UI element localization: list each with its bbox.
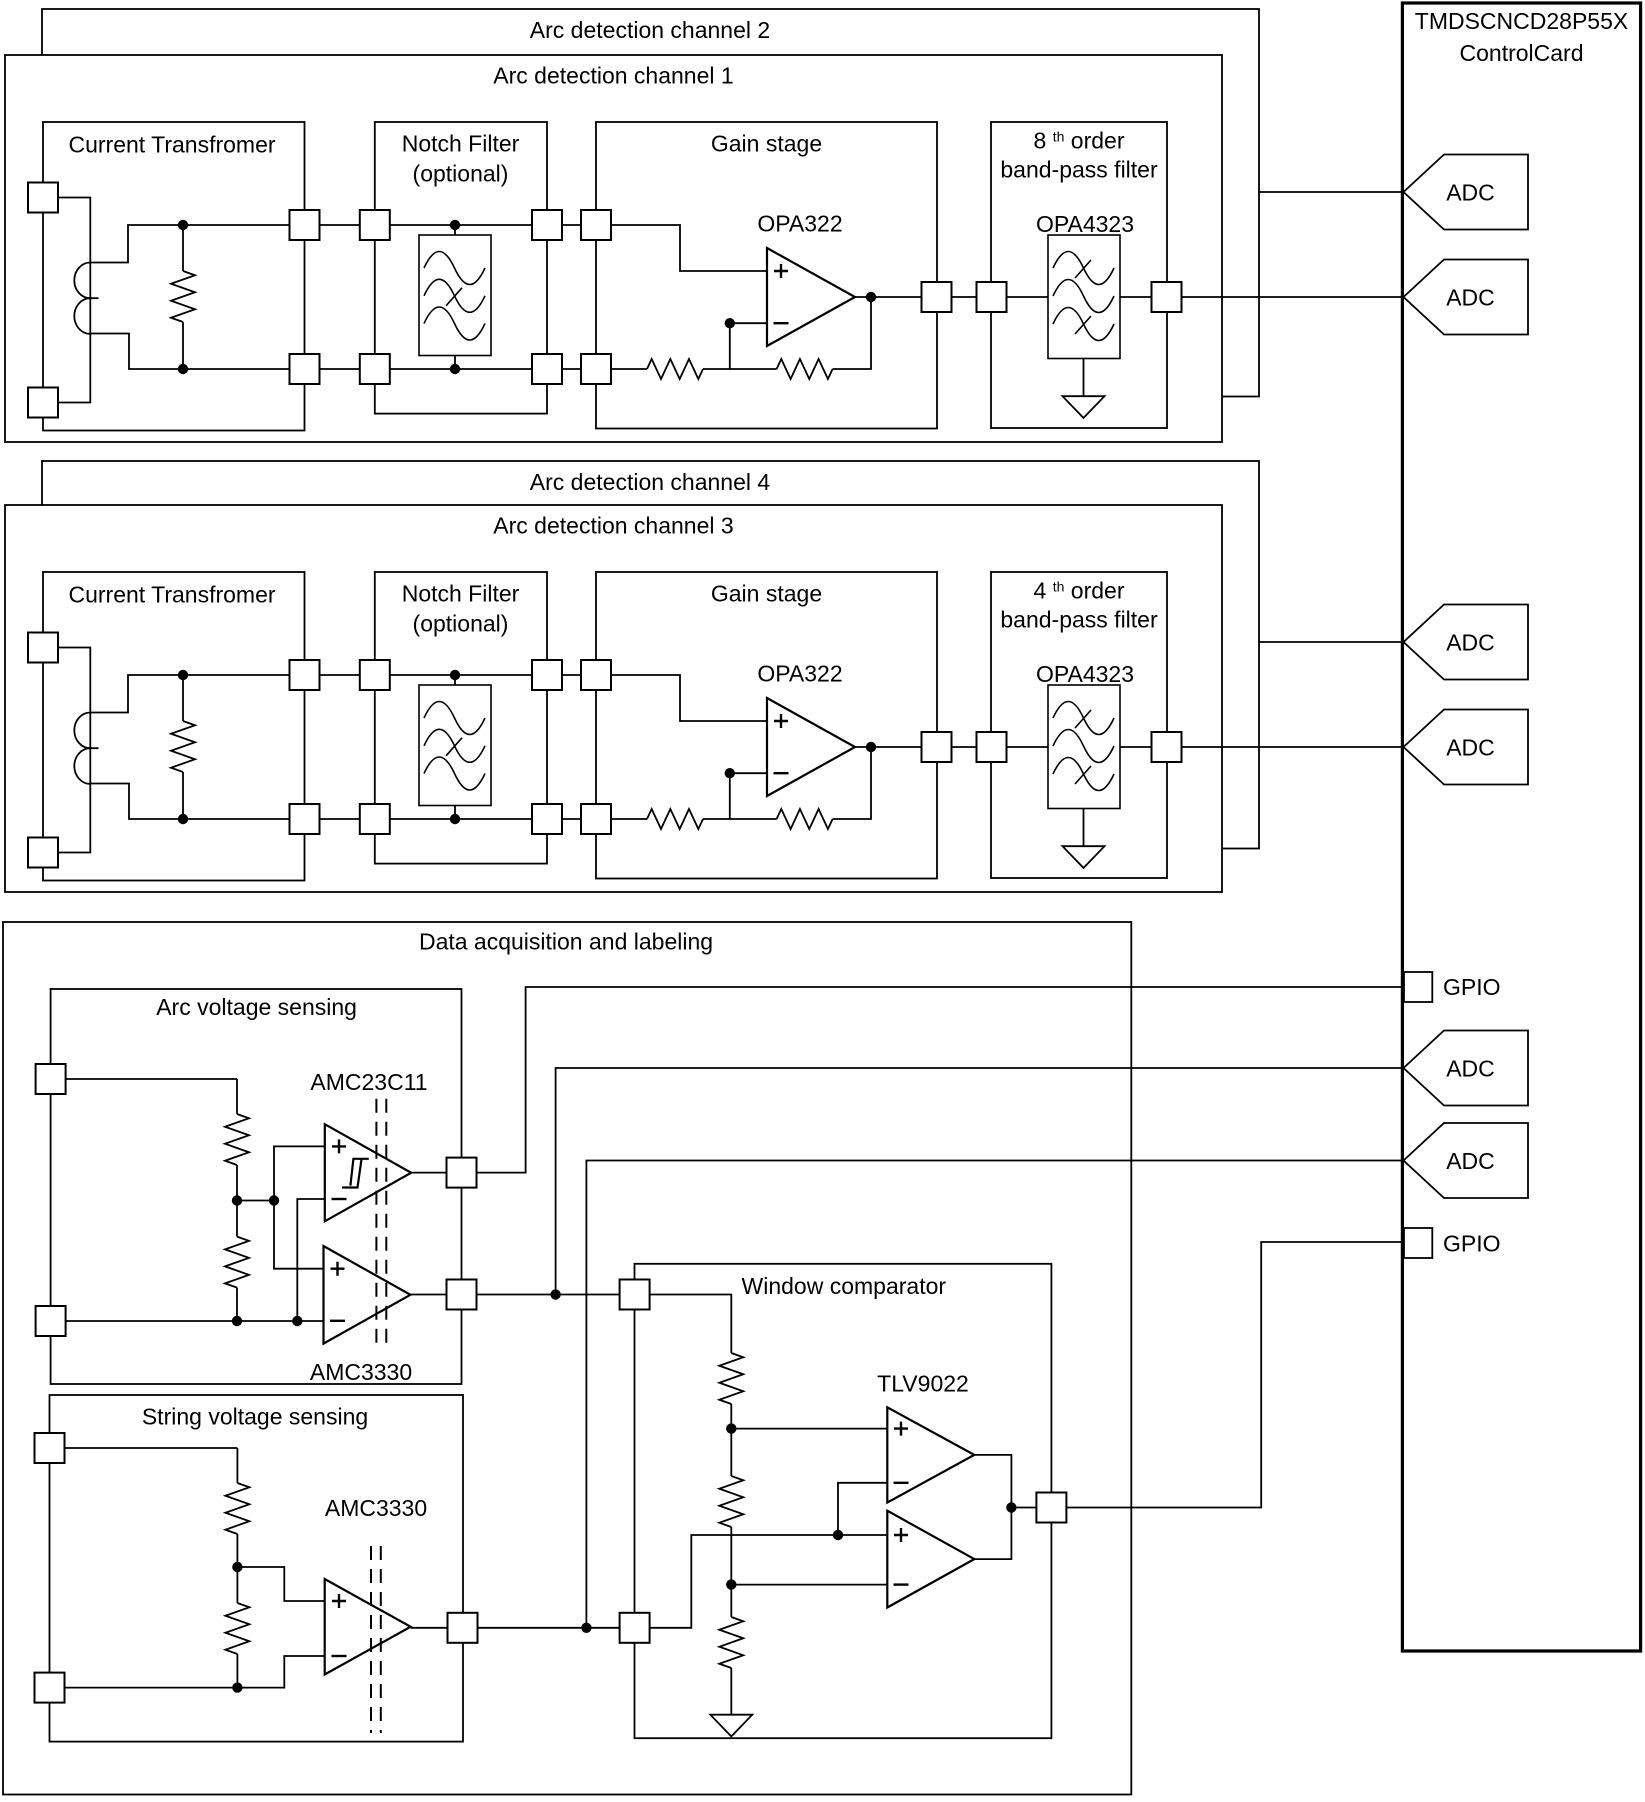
svg-text:Arc detection channel 3: Arc detection channel 3 — [493, 513, 733, 539]
current transformer T1 box — [43, 122, 305, 431]
svg-text:AMC3330: AMC3330 — [325, 1495, 427, 1521]
wire upper threshold to U8 + — [731, 1428, 887, 1430]
node gain 3 inverting junction — [725, 768, 735, 778]
port U6 out — [447, 1280, 477, 1310]
port notch 1 out bottom — [532, 354, 562, 384]
svg-text:GPIO: GPIO — [1443, 974, 1501, 1000]
gain 3 input resistor R3b — [596, 818, 647, 820]
pin GPIO1 square — [1404, 972, 1432, 1002]
port T3 primary bottom — [28, 838, 58, 868]
node window signal junction — [833, 1530, 843, 1540]
wire window top input — [635, 1295, 732, 1354]
svg-text:Notch Filter: Notch Filter — [402, 131, 520, 157]
port gain 3 in top — [581, 660, 611, 690]
port string sense top — [35, 1433, 65, 1463]
node gain 1 output junction — [866, 292, 876, 302]
svg-text:OPA4323: OPA4323 — [1036, 211, 1134, 237]
wire U7 output to ADC — [586, 1161, 1403, 1628]
port arc sense bottom — [36, 1306, 66, 1336]
svg-text:AMC23C11: AMC23C11 — [310, 1069, 427, 1095]
wire string sense top input — [50, 1448, 238, 1483]
port gain 1 in bottom — [581, 354, 611, 384]
svg-text:ADC: ADC — [1446, 1148, 1495, 1174]
port filter 1 in — [977, 282, 1007, 312]
svg-text:(optional): (optional) — [413, 161, 509, 187]
T3 primary coil — [74, 713, 98, 784]
notch filter block 3 box — [375, 572, 547, 864]
port gain 3 in bottom — [581, 804, 611, 834]
svg-text:TLV9022: TLV9022 — [877, 1371, 969, 1397]
wire R7a to R7b — [730, 1404, 732, 1476]
window comparator box — [635, 1264, 1052, 1738]
notch 3 top stub — [454, 675, 456, 685]
comparator U5 plus mark — [332, 1139, 346, 1153]
wire window output to GPIO — [1051, 1242, 1402, 1508]
node window output junction — [1006, 1502, 1016, 1512]
notch 3 bottom stub — [454, 806, 456, 820]
svg-text:8 th order: 8 th order — [1034, 128, 1125, 154]
wire U5 - input — [297, 1199, 325, 1321]
svg-text:Arc detection channel 1: Arc detection channel 1 — [493, 63, 733, 89]
node window divider upper — [726, 1423, 736, 1433]
port T3 primary top — [28, 633, 58, 663]
wire U6 output to ADC — [556, 1068, 1404, 1295]
svg-text:String voltage sensing: String voltage sensing — [142, 1404, 368, 1430]
band-pass filter block 1 box — [991, 122, 1167, 428]
op-amp U1a minus mark — [774, 322, 789, 324]
pin ADC3 pentagon — [1404, 605, 1529, 680]
wire U7 output to window comparator — [411, 1627, 635, 1629]
svg-text:Current Transfromer: Current Transfromer — [68, 582, 275, 608]
svg-text:ControlCard: ControlCard — [1460, 40, 1584, 66]
wire 1 signal to ADC — [855, 296, 1404, 298]
arc detection channel 2 box — [42, 9, 1259, 397]
svg-text:ADC: ADC — [1446, 735, 1495, 761]
notch filter block 1 box — [375, 122, 547, 414]
wire lower threshold to U9 - — [731, 1584, 887, 1586]
pin ADC4 pentagon — [1404, 710, 1529, 785]
svg-text:(optional): (optional) — [413, 611, 509, 637]
wire tap to U5 + input — [274, 1146, 325, 1200]
wire channel 4 to ADC — [1259, 641, 1404, 643]
node arc tap junction — [269, 1195, 279, 1205]
T3 primary wire — [43, 648, 90, 853]
node arc divider mid — [232, 1195, 242, 1205]
wire window bottom input — [635, 1535, 888, 1628]
svg-text:Current Transfromer: Current Transfromer — [68, 132, 275, 158]
port U5 out — [447, 1158, 477, 1188]
T1 primary wire — [43, 198, 90, 403]
port T1 out top — [290, 210, 320, 240]
node T3 top junction — [178, 670, 188, 680]
node arc bottom tap junction — [292, 1316, 302, 1326]
ground 1 under band-pass filter — [1083, 359, 1085, 397]
wire window output — [1011, 1507, 1051, 1509]
wire U8/U9 outputs join — [974, 1455, 1011, 1559]
wire CT3 to gain bottom — [305, 818, 597, 820]
T1 secondary bottom wire — [90, 334, 304, 370]
node notch 3 top junction — [450, 670, 460, 680]
pin ADC6 pentagon — [1404, 1123, 1529, 1198]
wire R7c to ground — [730, 1668, 732, 1677]
arc detection channel 4 box — [42, 461, 1259, 849]
op-amp U3a - input wire — [730, 773, 767, 819]
port window in bottom — [620, 1613, 650, 1643]
node gain 1 inverting junction — [725, 318, 735, 328]
port notch 1 out top — [532, 210, 562, 240]
amplifier U7 minus mark — [332, 1655, 347, 1657]
port notch 1 in bottom — [360, 354, 390, 384]
gain stage block 3 box — [596, 572, 937, 879]
band-pass filter block 3 box — [991, 572, 1167, 878]
op-amp U3a + input wire — [596, 675, 767, 721]
op-amp U1a plus mark — [774, 264, 788, 278]
comparator U8 minus mark — [894, 1482, 909, 1484]
wire divider tap — [237, 1200, 274, 1202]
op-amp U1a triangle — [767, 248, 855, 346]
comparator U5 minus mark — [332, 1198, 347, 1200]
amplifier U7 triangle — [325, 1579, 411, 1675]
wire U6 output to window comparator — [410, 1294, 634, 1296]
pin GPIO2 square — [1404, 1228, 1432, 1258]
svg-text:OPA322: OPA322 — [757, 211, 842, 237]
op-amp U3a minus mark — [774, 772, 789, 774]
wire R6a to R6b — [236, 1534, 238, 1603]
port notch 3 out top — [532, 660, 562, 690]
port notch 3 in bottom — [360, 804, 390, 834]
port arc sense top — [36, 1064, 66, 1094]
notch filter 3 glyph — [419, 685, 491, 806]
resistor R6a — [225, 1483, 249, 1534]
wire CT1 to gain bottom — [305, 368, 597, 370]
wire R7b to R7c — [730, 1527, 732, 1617]
node window divider lower — [726, 1579, 736, 1589]
port gain 3 out — [922, 732, 952, 762]
node U7 output junction — [581, 1623, 591, 1633]
comparator U9 plus mark — [894, 1528, 908, 1542]
svg-text:ADC: ADC — [1446, 285, 1495, 311]
amplifier U7 plus mark — [332, 1594, 346, 1608]
data acquisition and labeling box — [3, 922, 1131, 1795]
pin ADC1 pentagon — [1404, 155, 1529, 230]
port gain 1 out — [922, 282, 952, 312]
port notch 3 out bottom — [532, 804, 562, 834]
ground 3 under band-pass filter — [1083, 809, 1085, 847]
isolation barrier U5/U6 dashed lines — [376, 1099, 386, 1352]
resistor R7c — [719, 1617, 743, 1668]
node notch 1 top junction — [450, 220, 460, 230]
svg-text:OPA4323: OPA4323 — [1036, 661, 1134, 687]
notch 1 top stub — [454, 225, 456, 235]
port filter 1 out — [1152, 282, 1182, 312]
svg-text:AMC3330: AMC3330 — [310, 1359, 412, 1385]
amplifier U6 plus mark — [331, 1262, 345, 1276]
svg-text:Gain stage: Gain stage — [711, 131, 822, 157]
burden resistor R3a — [182, 675, 184, 721]
port U7 out — [448, 1613, 478, 1643]
comparator U9 triangle — [887, 1511, 974, 1608]
wire R5b to bottom — [236, 1288, 238, 1321]
wire CT1 to gain top — [305, 224, 597, 226]
svg-text:Window comparator: Window comparator — [742, 1273, 947, 1299]
port T1 out bottom — [290, 354, 320, 384]
isolation barrier U7 dashed lines — [371, 1546, 381, 1733]
node T3 bottom junction — [178, 814, 188, 824]
svg-text:ADC: ADC — [1446, 1056, 1495, 1082]
op-amp U3a triangle — [767, 698, 855, 796]
svg-text:4 th order: 4 th order — [1034, 578, 1125, 604]
wire tap to U6 + input — [274, 1201, 324, 1269]
band-pass filter U3b glyph — [1048, 685, 1120, 809]
op-amp U3a plus mark — [774, 714, 788, 728]
svg-text:GPIO: GPIO — [1443, 1231, 1501, 1257]
comparator U5 triangle — [325, 1124, 411, 1221]
comparator U9 minus mark — [894, 1583, 909, 1585]
T3 secondary bottom wire — [90, 784, 304, 820]
wire R6b to bottom — [236, 1654, 238, 1688]
node gain 3 output junction — [866, 742, 876, 752]
port notch 3 in top — [360, 660, 390, 690]
wire channel 2 to ADC — [1259, 191, 1404, 193]
svg-text:Gain stage: Gain stage — [711, 581, 822, 607]
resistor R7b — [719, 1476, 743, 1527]
svg-text:band-pass filter: band-pass filter — [1000, 157, 1158, 183]
node U6 output junction — [550, 1289, 560, 1299]
amplifier U6 triangle — [324, 1246, 411, 1344]
wire R5a to R5b — [236, 1165, 238, 1237]
port string sense bottom — [35, 1673, 65, 1703]
wire CT3 to gain top — [305, 674, 597, 676]
pin ADC5 pentagon — [1404, 1031, 1529, 1106]
resistor R5a — [225, 1114, 249, 1165]
port window out — [1036, 1493, 1066, 1523]
node T1 bottom junction — [178, 364, 188, 374]
TMDSCNCD28P55X ControlCard box — [1402, 3, 1640, 1651]
node string bottom junction — [232, 1682, 242, 1692]
port T3 out top — [290, 660, 320, 690]
port T1 primary bottom — [28, 388, 58, 418]
T1 primary coil — [74, 263, 98, 334]
wire signal to U8 - — [838, 1483, 887, 1535]
port gain 1 in top — [581, 210, 611, 240]
comparator U8 triangle — [887, 1407, 974, 1502]
svg-text:Arc voltage sensing: Arc voltage sensing — [156, 994, 357, 1020]
arc detection channel 3 box — [5, 505, 1222, 892]
port T1 primary top — [28, 183, 58, 213]
T3 secondary top wire — [90, 675, 304, 713]
notch 1 bottom stub — [454, 356, 456, 370]
amplifier U6 minus mark — [330, 1320, 345, 1322]
node arc bottom R junction — [232, 1316, 242, 1326]
burden resistor R1a — [182, 225, 184, 271]
port filter 3 out — [1152, 732, 1182, 762]
pin ADC2 pentagon — [1404, 260, 1529, 335]
svg-text:TMDSCNCD28P55X: TMDSCNCD28P55X — [1415, 8, 1628, 34]
svg-text:ADC: ADC — [1446, 630, 1495, 656]
op-amp U1a - input wire — [730, 323, 767, 369]
port window in top — [620, 1280, 650, 1310]
gain 3 feedback resistor R3c — [703, 818, 777, 820]
notch filter 1 glyph — [419, 235, 491, 356]
node string divider mid — [232, 1562, 242, 1572]
port notch 1 in top — [360, 210, 390, 240]
wire 3 signal to ADC — [855, 746, 1404, 748]
svg-text:band-pass filter: band-pass filter — [1000, 607, 1158, 633]
comparator U5 hysteresis glyph — [342, 1159, 369, 1188]
T1 secondary top wire — [90, 225, 304, 263]
port T3 out bottom — [290, 804, 320, 834]
gain 1 feedback resistor R1c — [703, 368, 777, 370]
string voltage sensing box — [50, 1395, 464, 1742]
resistor R7a — [719, 1353, 743, 1404]
arc voltage sensing box — [51, 989, 462, 1384]
wire arc sense bottom input — [51, 1320, 324, 1322]
svg-text:OPA322: OPA322 — [757, 661, 842, 687]
svg-text:ADC: ADC — [1446, 180, 1495, 206]
ground under window divider — [730, 1677, 732, 1715]
resistor R5b — [225, 1237, 249, 1288]
node T1 top junction — [178, 220, 188, 230]
port filter 3 in — [977, 732, 1007, 762]
band-pass filter U1b glyph — [1048, 235, 1120, 359]
node notch 1 bottom junction — [450, 364, 460, 374]
node notch 3 bottom junction — [450, 814, 460, 824]
svg-text:Arc detection channel 4: Arc detection channel 4 — [530, 469, 771, 495]
wire arc sense top input — [51, 1079, 237, 1114]
op-amp U1a + input wire — [596, 225, 767, 271]
svg-text:Arc detection channel 2: Arc detection channel 2 — [530, 17, 770, 43]
svg-text:Data acquisition and labeling: Data acquisition and labeling — [419, 929, 713, 955]
svg-text:Notch Filter: Notch Filter — [402, 581, 520, 607]
comparator U8 plus mark — [894, 1422, 908, 1436]
wire string sense bottom input — [50, 1656, 325, 1688]
wire string tap to U7 + input — [237, 1567, 324, 1601]
arc detection channel 1 box — [5, 55, 1222, 442]
gain stage block 1 box — [596, 122, 937, 429]
resistor R6b — [225, 1603, 249, 1654]
current transformer T3 box — [43, 572, 305, 881]
gain 1 input resistor R1b — [596, 368, 647, 370]
wire U5 output to GPIO — [411, 987, 1402, 1173]
